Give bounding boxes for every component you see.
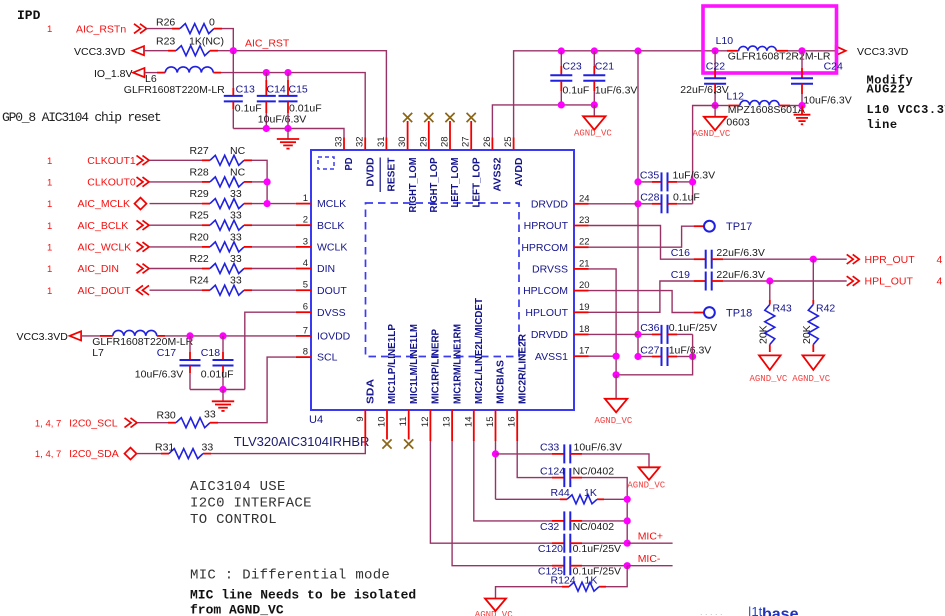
- svg-text:CLKOUT0: CLKOUT0: [87, 177, 136, 189]
- svg-text:3: 3: [303, 236, 308, 247]
- svg-text:22uF/6.3V: 22uF/6.3V: [716, 269, 764, 281]
- pin 3 WCLK: [296, 246, 311, 248]
- svg-text:4: 4: [937, 254, 943, 266]
- svg-text:AVSS1: AVSS1: [535, 351, 568, 363]
- svg-text:C33: C33: [540, 442, 559, 454]
- svg-text:31: 31: [376, 136, 387, 147]
- capacitor C13: [232, 51, 234, 88]
- svg-text:AIC_BCLK: AIC_BCLK: [78, 220, 129, 232]
- wire C19 to HPL_OUT: [723, 280, 847, 282]
- junction R43 top: [766, 277, 773, 284]
- svg-text:19: 19: [579, 302, 590, 313]
- svg-text:SCL: SCL: [317, 352, 338, 364]
- svg-text:GLFR1608T220M-LR: GLFR1608T220M-LR: [92, 336, 193, 348]
- svg-text:LEFT_LOP: LEFT_LOP: [471, 157, 482, 207]
- junction gndrow C23: [558, 101, 565, 108]
- junction gndrow C21: [591, 101, 598, 108]
- svg-text:BCLK: BCLK: [317, 220, 344, 232]
- no-connect X at pin x=471.2: [470, 121, 472, 138]
- junction C14 top: [263, 69, 270, 76]
- wire gnd bus: [190, 389, 245, 391]
- junction R42 top: [810, 256, 817, 263]
- svg-text:33: 33: [230, 253, 242, 265]
- junction MIC-: [624, 562, 631, 569]
- resistor R42: [812, 259, 814, 300]
- svg-text:R42: R42: [816, 303, 835, 315]
- svg-text:33: 33: [230, 275, 242, 287]
- capacitor C16: [694, 258, 706, 260]
- pin 24 DRVDD: [574, 203, 589, 205]
- junction C32: [624, 517, 631, 524]
- svg-text:GLFR1608T220M-LR: GLFR1608T220M-LR: [124, 84, 225, 96]
- no-connect X pin10: [382, 439, 391, 448]
- pin 10 MIC1LP/LINE1LP: [386, 410, 388, 440]
- svg-text:AIC_RSTn: AIC_RSTn: [76, 23, 126, 35]
- svg-text:14: 14: [463, 417, 474, 428]
- svg-text:1K: 1K: [585, 575, 598, 587]
- junction C15 top: [284, 69, 291, 76]
- resistor R44: [496, 498, 561, 500]
- wire pin14 to C32: [474, 441, 552, 521]
- svg-text:1, 4, 7: 1, 4, 7: [35, 449, 61, 460]
- wire DRVDD vertical: [637, 51, 639, 357]
- svg-text:18: 18: [579, 324, 590, 335]
- resistor R124: [599, 586, 606, 588]
- svg-text:AVDD: AVDD: [514, 158, 525, 187]
- ground earth mid: [222, 390, 224, 402]
- wire pin24 to DRVDD: [589, 203, 639, 205]
- wire pin18 to DRVDD: [589, 333, 639, 335]
- resistor R20: [210, 242, 244, 252]
- pin 22 HPRCOM: [574, 246, 589, 248]
- svg-text:R43: R43: [773, 303, 792, 315]
- svg-text:R44: R44: [551, 487, 570, 499]
- inductor L10: [727, 50, 739, 52]
- pin 19 HPLOUT: [574, 311, 589, 313]
- svg-text:VCC3.3VD: VCC3.3VD: [17, 331, 69, 343]
- svg-text:1: 1: [303, 193, 308, 204]
- svg-text:AIC3104 USE: AIC3104 USE: [190, 479, 286, 495]
- wire AIC_DIN to R22: [150, 268, 203, 270]
- svg-text:1uF/6.3V: 1uF/6.3V: [595, 84, 638, 96]
- ground earth top: [287, 129, 289, 140]
- svg-text:20K: 20K: [758, 325, 770, 344]
- svg-text:R25: R25: [190, 210, 209, 222]
- wire CLKOUT0 to R28: [150, 181, 203, 183]
- svg-text:MIC1RM/LINE1RM: MIC1RM/LINE1RM: [452, 324, 463, 404]
- capacitor C125: [552, 565, 564, 567]
- svg-text:AGND_VC: AGND_VC: [792, 374, 830, 384]
- svg-text:17: 17: [579, 346, 590, 357]
- svg-text:GP0_8 AIC3104 chip reset: GP0_8 AIC3104 chip reset: [2, 110, 161, 125]
- svg-text:C35: C35: [640, 170, 659, 182]
- pin 2 BCLK: [296, 224, 311, 226]
- resistor R27: [210, 155, 244, 165]
- pin 7 IOVDD: [296, 335, 311, 337]
- svg-text:AIC_WCLK: AIC_WCLK: [78, 242, 132, 254]
- wire HPRCOM pin22 to TP17: [589, 226, 694, 247]
- svg-text:13: 13: [442, 417, 453, 428]
- wire HPLOUT pin19 to C19: [589, 281, 694, 312]
- svg-text:23: 23: [579, 215, 590, 226]
- svg-text:WCLK: WCLK: [317, 242, 347, 254]
- svg-text:SDA: SDA: [366, 379, 377, 404]
- wire ground bus to PD pin33: [233, 129, 344, 138]
- wire C22 gnd row west down: [693, 106, 716, 204]
- svg-text:R24: R24: [190, 275, 209, 287]
- resistor R31: [169, 449, 203, 459]
- wire C120 to MIC+: [582, 542, 627, 544]
- svg-text:1: 1: [47, 264, 52, 275]
- svg-text:MIC1LP/LINE1LP: MIC1LP/LINE1LP: [387, 324, 398, 404]
- svg-text:GLFR1608T2R2M-LR: GLFR1608T2R2M-LR: [728, 50, 831, 62]
- wire MICBIAS pin15 down: [495, 441, 497, 499]
- svg-text:1, 4, 7: 1, 4, 7: [35, 418, 61, 429]
- ground AGND_VC under R43: [759, 355, 781, 370]
- svg-text:1: 1: [47, 199, 52, 210]
- svg-text:11: 11: [398, 417, 409, 427]
- svg-text:AIC_DOUT: AIC_DOUT: [78, 285, 132, 297]
- svg-text:L10 VCC3.3V: L10 VCC3.3V: [867, 103, 945, 117]
- wire pin12 to C120: [430, 441, 552, 543]
- svg-text:0.1uF: 0.1uF: [673, 192, 700, 204]
- svg-text:AGND_VC: AGND_VC: [475, 610, 513, 616]
- svg-text:MCLK: MCLK: [317, 198, 346, 210]
- svg-text:HPLOUT: HPLOUT: [525, 307, 568, 319]
- ground AGND_VC under C21: [593, 105, 595, 116]
- wire resistor out to pin: [252, 246, 296, 248]
- wire AIC_BCLK to R25: [150, 224, 203, 226]
- capacitor C124: [552, 477, 564, 479]
- pin 20 HPLCOM: [574, 290, 589, 292]
- ground AGND_VC under C33: [639, 467, 660, 480]
- svg-text:30: 30: [397, 136, 408, 147]
- svg-text:MIC2L/LINE2L/MICDET: MIC2L/LINE2L/MICDET: [474, 298, 485, 404]
- wire CLKOUT1 to R27: [150, 159, 203, 161]
- svg-text:1: 1: [47, 24, 52, 35]
- svg-text:0.1uF: 0.1uF: [235, 102, 262, 114]
- wire resistor out to pin: [252, 268, 296, 270]
- junction C24 bottom L12: [798, 102, 805, 109]
- junction MCLK tie: [264, 200, 271, 207]
- svg-text:R20: R20: [190, 231, 209, 243]
- highlight box magenta: [703, 6, 837, 73]
- svg-text:1: 1: [47, 156, 52, 167]
- svg-text:RIGHT_LOP: RIGHT_LOP: [429, 157, 440, 212]
- svg-text:C27: C27: [640, 344, 659, 356]
- svg-text:R26: R26: [156, 16, 175, 28]
- svg-text:22uF/6.3V: 22uF/6.3V: [716, 247, 764, 259]
- junction CLKOUT0 tie: [264, 178, 271, 185]
- junction AIC_RST: [230, 47, 237, 54]
- svg-text:0: 0: [209, 16, 215, 28]
- svg-text:20K: 20K: [801, 325, 813, 344]
- pin 29 RIGHT_LOP: [428, 138, 430, 151]
- capacitor C15: [287, 73, 289, 80]
- pin 33 PD: [343, 138, 345, 151]
- svg-text:1: 1: [47, 221, 52, 232]
- svg-text:I2C0_SDA: I2C0_SDA: [69, 448, 119, 460]
- svg-text:C24: C24: [824, 61, 843, 73]
- wire I2C0_SCL to R30: [137, 422, 168, 424]
- svg-text:C22: C22: [706, 61, 725, 73]
- wire AVSS2 pin26 to gnd row: [492, 105, 594, 138]
- capacitor C33: [496, 453, 553, 455]
- svg-text:10: 10: [377, 417, 388, 428]
- capacitor C24: [801, 51, 803, 68]
- junction gnd bus C18: [219, 386, 226, 393]
- inductor L7: [81, 335, 100, 337]
- svg-text:MIC-: MIC-: [638, 553, 661, 565]
- svg-text:MIC line Needs to be isolated: MIC line Needs to be isolated: [190, 588, 416, 603]
- svg-text:I2C0 INTERFACE: I2C0 INTERFACE: [190, 496, 312, 512]
- svg-text:22: 22: [579, 237, 590, 248]
- wire R27 to tie: [252, 160, 267, 203]
- capacitor C28: [638, 203, 652, 205]
- svg-text:R31: R31: [155, 441, 174, 453]
- svg-text:NC: NC: [230, 166, 246, 178]
- capacitor C19: [694, 280, 706, 282]
- svg-text:5: 5: [303, 280, 308, 291]
- wire MIC+ tail: [627, 542, 672, 544]
- wire HPLCOM pin20 to TP18: [589, 291, 694, 313]
- capacitor C21: [593, 51, 595, 66]
- svg-text:VCC3.3VD: VCC3.3VD: [74, 46, 126, 58]
- ground AGND_VC bottom: [485, 599, 506, 612]
- svg-text:|1t: |1t: [748, 604, 763, 616]
- svg-text:NC: NC: [230, 145, 246, 157]
- wire R29 to MCLK pin1: [252, 203, 296, 205]
- svg-text:AIC_MCLK: AIC_MCLK: [78, 198, 131, 210]
- resistor R29: [210, 199, 244, 209]
- svg-text:MIC2R/LINE2R: MIC2R/LINE2R: [517, 333, 528, 404]
- port VCC3.3VD right: [836, 46, 846, 55]
- svg-text:R124: R124: [551, 575, 576, 587]
- svg-text:0.1uF/25V: 0.1uF/25V: [573, 543, 621, 555]
- svg-text:C18: C18: [201, 347, 220, 359]
- svg-text:C120: C120: [538, 543, 563, 555]
- junction C18 top: [219, 332, 226, 339]
- svg-text:base: base: [762, 606, 799, 616]
- junction C22 bottom: [712, 102, 719, 109]
- pin 25 AVDD: [513, 138, 515, 151]
- wire L7 to IOVDD pin7: [165, 335, 296, 337]
- wire AIC_WCLK to R20: [150, 246, 203, 248]
- svg-text:C32: C32: [540, 521, 559, 533]
- svg-text:MPZ1608S601A: MPZ1608S601A: [728, 104, 805, 116]
- capacitor C120: [552, 542, 564, 544]
- wire R31 to SDA pin9: [203, 453, 211, 455]
- svg-text:R30: R30: [157, 409, 176, 421]
- junction AVSS1: [613, 353, 620, 360]
- svg-text:1: 1: [47, 243, 52, 254]
- junction rail C22 L10: [712, 47, 719, 54]
- wire MIC- tail: [627, 565, 672, 567]
- svg-text:6: 6: [303, 302, 308, 313]
- pin 9 SDA: [364, 410, 366, 446]
- no-connect X at pin x=450: [449, 121, 451, 138]
- svg-text:AGND_VC: AGND_VC: [595, 416, 633, 426]
- svg-text:C14: C14: [267, 84, 286, 96]
- inductor L6: [145, 72, 158, 74]
- svg-text:26: 26: [482, 136, 493, 147]
- junction R44: [624, 496, 631, 503]
- pin 1 MCLK: [296, 203, 311, 205]
- svg-text:0.01uF: 0.01uF: [289, 102, 322, 114]
- svg-text:DRVDD: DRVDD: [531, 329, 569, 341]
- junction DRVDD pin18: [634, 331, 641, 338]
- svg-text:1: 1: [47, 286, 52, 297]
- wire C124 to MIC+ vertical: [582, 478, 627, 544]
- svg-text:TP17: TP17: [726, 221, 752, 233]
- svg-text:. . . . .: . . . . .: [700, 607, 723, 616]
- inductor L12: [715, 105, 728, 107]
- svg-text:MIC+: MIC+: [638, 531, 663, 543]
- svg-text:AIC_DIN: AIC_DIN: [78, 263, 119, 275]
- wire DVSS pin6 down to gnd bus: [245, 312, 296, 389]
- pin 5 DOUT: [296, 289, 311, 291]
- svg-text:R28: R28: [190, 166, 209, 178]
- svg-text:NC/0402: NC/0402: [573, 465, 615, 477]
- pin 16 MIC2R/LINE2R: [516, 410, 518, 441]
- svg-text:33: 33: [202, 441, 214, 453]
- capacitor C32: [552, 520, 564, 522]
- svg-text:9: 9: [355, 417, 366, 422]
- pin 23 HPROUT: [574, 225, 589, 227]
- wire DRVSS pin21 to AGND: [589, 269, 617, 375]
- svg-text:RIGHT_LOM: RIGHT_LOM: [408, 158, 419, 213]
- pin 30 RIGHT_LOM: [407, 138, 409, 151]
- port HPR_OUT: [847, 254, 860, 264]
- pin 11 MIC1LM/LINE1LM: [408, 410, 410, 440]
- wire resistor out to pin: [252, 289, 296, 291]
- svg-text:TO CONTROL: TO CONTROL: [190, 512, 277, 528]
- svg-text:27: 27: [461, 136, 472, 147]
- pin 27 LEFT_LOP: [470, 138, 472, 151]
- svg-text:0.01uF: 0.01uF: [201, 368, 234, 380]
- svg-text:TLV320AIC3104IRHBR: TLV320AIC3104IRHBR: [234, 434, 370, 449]
- testpoint TP17: [694, 225, 704, 227]
- svg-text:AGND_VC: AGND_VC: [574, 129, 612, 139]
- port HPL_OUT: [847, 276, 860, 286]
- junction rail C24 L10: [798, 47, 805, 54]
- wire AIC_MCLK to R29: [150, 203, 203, 205]
- svg-text:C15: C15: [289, 84, 308, 96]
- wire HPROUT pin23 to C16: [589, 226, 694, 260]
- svg-text:33: 33: [230, 231, 242, 243]
- svg-text:R22: R22: [190, 253, 209, 265]
- wire C125 to MIC-: [582, 565, 627, 567]
- RESET overline: [379, 158, 381, 193]
- svg-text:NC/0402: NC/0402: [573, 521, 615, 533]
- wire AIC_DOUT to R24: [150, 289, 203, 291]
- svg-text:DIN: DIN: [317, 263, 335, 275]
- pin 13 MIC1RM/LINE1RM: [451, 410, 453, 441]
- junction DRVDD pin24: [634, 200, 641, 207]
- wire pin16 to C124: [517, 441, 552, 478]
- junction bus C14: [263, 125, 270, 132]
- junction bus C15: [284, 125, 291, 132]
- capacitor C17: [189, 336, 191, 352]
- svg-text:0603: 0603: [726, 116, 750, 128]
- pin 8 SCL: [296, 356, 311, 358]
- resistor R28: [210, 177, 244, 187]
- wire C32 to MIC+ vertical: [582, 520, 627, 522]
- capacitor C35: [638, 181, 652, 183]
- wire R30 to SCL pin8: [210, 422, 218, 424]
- wire VCC3.3VD to R23: [144, 50, 168, 52]
- svg-text:AUG22: AUG22: [867, 83, 906, 97]
- svg-text:25: 25: [503, 136, 514, 147]
- svg-text:HPLCOM: HPLCOM: [523, 285, 568, 297]
- svg-text:10uF/6.3V: 10uF/6.3V: [135, 368, 183, 380]
- svg-text:from AGND_VC: from AGND_VC: [190, 603, 284, 616]
- svg-text:C16: C16: [671, 247, 690, 259]
- pin 12 MIC1RP/LINERP: [429, 410, 431, 441]
- resistor R26: [180, 24, 214, 34]
- wire L6 to DVDD pin32: [221, 73, 365, 138]
- svg-text:U4: U4: [309, 414, 323, 426]
- wire AVSS1 pin17: [589, 355, 617, 357]
- capacitor C27: [638, 356, 652, 358]
- svg-text:VCC3.3VD: VCC3.3VD: [857, 46, 909, 58]
- svg-text:12: 12: [420, 417, 431, 428]
- svg-text:C28: C28: [640, 192, 659, 204]
- svg-text:DRVSS: DRVSS: [532, 264, 568, 276]
- svg-text:R23: R23: [156, 35, 175, 47]
- svg-text:28: 28: [440, 136, 451, 147]
- IC U4 TLV320AIC3104IRHBR body: [311, 150, 574, 410]
- svg-text:1K(NC): 1K(NC): [189, 35, 224, 47]
- ground AGND_VC under C22: [714, 106, 716, 117]
- svg-text:AGND_VC: AGND_VC: [750, 374, 788, 384]
- svg-text:DVDD: DVDD: [365, 158, 376, 187]
- wire MIC- down to R124: [606, 566, 627, 587]
- svg-text:22uF/6.3V: 22uF/6.3V: [680, 84, 728, 96]
- svg-text:R27: R27: [190, 145, 209, 157]
- resistor R24: [210, 285, 244, 295]
- svg-text:10uF/6.3V: 10uF/6.3V: [574, 442, 622, 454]
- svg-text:0.1uF/25V: 0.1uF/25V: [669, 322, 717, 334]
- pin 14 MIC2L/LINE2L/MICDET: [473, 410, 475, 441]
- resistor R22: [210, 264, 244, 274]
- svg-text:C124: C124: [540, 465, 565, 477]
- no-connect X at pin x=407.6: [407, 121, 409, 138]
- junction MIC+: [624, 540, 631, 547]
- svg-text:33: 33: [334, 136, 345, 147]
- svg-text:AVSS2: AVSS2: [493, 157, 504, 191]
- junction AGND corner: [613, 371, 620, 378]
- svg-text:1K: 1K: [584, 487, 597, 499]
- capacitor C14: [265, 73, 267, 80]
- svg-text:MIC1RP/LINERP: MIC1RP/LINERP: [431, 329, 442, 404]
- svg-text:8: 8: [303, 347, 308, 358]
- capacitor C18: [222, 336, 224, 352]
- svg-text:MICBIAS: MICBIAS: [496, 360, 507, 404]
- junction rail C23: [558, 47, 565, 54]
- svg-text:20: 20: [579, 280, 590, 291]
- svg-text:AGND_VC: AGND_VC: [693, 129, 731, 139]
- svg-text:CLKOUT1: CLKOUT1: [87, 155, 136, 167]
- svg-text:33: 33: [204, 408, 216, 420]
- svg-text:4: 4: [937, 276, 943, 288]
- svg-text:10uF/6.3V: 10uF/6.3V: [258, 114, 306, 126]
- resistor R23: [176, 46, 210, 56]
- svg-text:24: 24: [579, 193, 590, 204]
- pin 26 AVSS2: [491, 138, 493, 151]
- svg-text:DRVDD: DRVDD: [531, 198, 569, 210]
- pin 28 LEFT_LOM: [449, 138, 451, 151]
